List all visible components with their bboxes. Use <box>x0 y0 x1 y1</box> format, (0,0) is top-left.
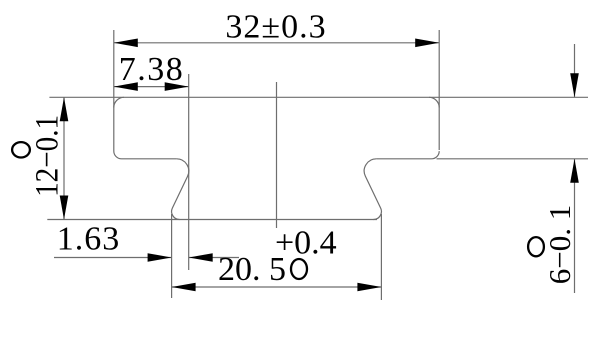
profile right flange bottom edge <box>376 158 431 160</box>
arrow 12 bottom <box>60 196 69 220</box>
svg-text:32±0.3: 32±0.3 <box>225 9 326 46</box>
arrow 20.5 right <box>357 283 381 292</box>
profile top edge with extension lines <box>49 96 588 98</box>
dim line 32 <box>114 42 439 44</box>
svg-text:12−0.1: 12−0.1 <box>30 115 66 197</box>
arrow 7.38 right <box>165 82 189 91</box>
right S-hook curve <box>364 159 381 220</box>
extension line x=188.7 (7.38 / 1.63) <box>188 74 190 270</box>
profile bottom edge with left extension line <box>47 219 377 221</box>
svg-text:7.38: 7.38 <box>119 51 185 88</box>
top-left corner fillet <box>114 97 124 107</box>
right flange corner fillet <box>432 151 440 159</box>
svg-text:+0.4: +0.4 <box>275 225 337 262</box>
dim line 12 (left) <box>63 97 65 219</box>
svg-text:6−0. 1: 6−0. 1 <box>542 205 577 284</box>
text 6 upper deviation 0 rotated (drawn as oval) <box>528 237 544 256</box>
svg-text:1.63: 1.63 <box>57 221 121 258</box>
dim line 20.5 <box>172 286 382 288</box>
extension line right of flange (6 dim) <box>437 158 589 160</box>
dim line 1.63 right tail <box>189 257 239 259</box>
extension line x=381.4 (20.5) <box>380 214 382 300</box>
left S-hook curve <box>172 159 189 220</box>
arrow 1.63 right (points left) <box>189 253 213 262</box>
arrow 12 top <box>60 97 69 121</box>
text 20.5 lower deviation 0 (drawn as oval) <box>291 259 307 279</box>
arrow 6 bottom (points up) <box>570 159 579 183</box>
arrow 32 left <box>114 39 138 48</box>
arrow 6 top (points down) <box>570 73 579 97</box>
dim line 1.63 left part <box>54 257 172 259</box>
top-right corner fillet <box>429 97 439 107</box>
center line <box>276 82 278 228</box>
arrow 20.5 left <box>172 283 196 292</box>
dim line 7.38 <box>114 86 189 88</box>
profile right edge + 32 extension <box>438 30 440 150</box>
arrow 32 right <box>415 39 439 48</box>
arrow 7.38 left <box>114 82 138 91</box>
text 12 upper deviation 0 rotated (drawn as oval) <box>12 142 30 157</box>
dim line 6 upper segment <box>574 44 576 97</box>
profile left edge + 32 extension <box>113 30 115 151</box>
left flange corner fillet <box>114 151 122 159</box>
arrow 1.63 left (points right) <box>148 253 172 262</box>
extension line x=171.6 (1.63 / 20.5) <box>171 214 173 298</box>
dim line 6 lower segment <box>574 159 576 293</box>
profile left flange bottom edge <box>122 158 177 160</box>
